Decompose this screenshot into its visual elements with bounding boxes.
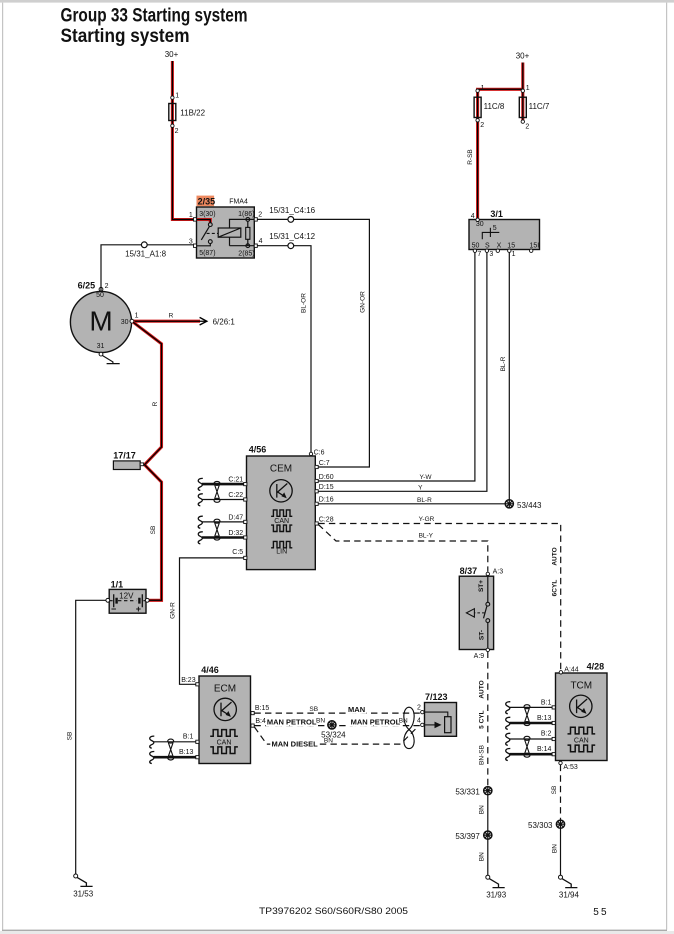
ECM pin B:13 (196, 756, 199, 759)
wire from 3/1 pin 1(15) down to CEM D:16, BL-R (318, 252, 509, 503)
TCM K symbol (570, 695, 592, 717)
svg-text:1: 1 (189, 212, 193, 219)
svg-text:+: + (136, 604, 141, 614)
wire BN from 53/331 to 53/397 (487, 794, 489, 831)
svg-text:Group 33 Starting system: Group 33 Starting system (61, 5, 248, 26)
svg-text:MAN PETROL: MAN PETROL (351, 717, 401, 726)
splice 53/331 (484, 787, 492, 795)
svg-text:15/31_C4:16: 15/31_C4:16 (269, 206, 315, 215)
svg-text:4: 4 (471, 213, 475, 220)
svg-text:C:6: C:6 (314, 449, 325, 456)
wire to TCM B:14 (thick) (510, 753, 553, 756)
pin 1 of fuse 11C/7 (521, 89, 524, 92)
splice 53/443 (505, 500, 513, 508)
svg-text:ECM: ECM (214, 683, 236, 694)
wire BN from 53/303 to ground 31/94 (560, 828, 562, 875)
dashed wire SB from TCM A:53 to splice 53/303 (560, 765, 562, 821)
svg-text:30: 30 (476, 221, 484, 228)
svg-text:C:5: C:5 (232, 549, 243, 556)
wire to TCM B:1 (510, 706, 553, 708)
svg-text:ST+: ST+ (478, 580, 485, 592)
svg-text:53/331: 53/331 (455, 788, 480, 797)
svg-text:Y: Y (418, 485, 423, 492)
ECM K symbol (214, 698, 236, 720)
dashed wire from 8/37 A:9 down to splice 53/331, 5CYL AUTO, BN-SB (487, 652, 489, 787)
svg-text:55: 55 (593, 907, 609, 918)
TCM pin A:53 (559, 761, 562, 764)
svg-text:3/1: 3/1 (490, 209, 503, 219)
CEM body (247, 456, 316, 570)
svg-text:50: 50 (96, 292, 104, 299)
wire from relay pin 2 via 15/31_C4:16 down to CEM C:7, GN-OR (257, 219, 369, 467)
twisted pair symbol C:21/C:22 (214, 481, 220, 502)
wire from 3/1 pin 7(50) down to CEM D:60, Y-W (318, 252, 475, 481)
ignition switch bottom pins (473, 249, 476, 252)
cable break squiggle C:22 (198, 494, 203, 506)
svg-text:D:32: D:32 (228, 530, 243, 537)
TCM CAN symbol (568, 727, 596, 734)
8/37 body (459, 576, 493, 649)
wire red R from motor pin 30 to 6/26:1 (134, 320, 200, 323)
svg-text:CAN: CAN (574, 738, 589, 745)
CEM pin D:60 (315, 479, 318, 482)
pin 4 of 7/123 (421, 723, 424, 726)
pin A:3 of 8/37 (486, 572, 489, 575)
svg-text:5: 5 (493, 225, 497, 232)
svg-text:2: 2 (175, 128, 179, 135)
cable break squiggle C:21 (198, 478, 203, 490)
svg-text:GN-OR: GN-OR (360, 291, 367, 313)
svg-text:6/26:1: 6/26:1 (213, 317, 236, 326)
svg-text:11B/22: 11B/22 (180, 109, 205, 118)
CEM CAN symbol (271, 510, 292, 516)
pin 1 of fuse 11C/8 (476, 89, 479, 92)
dashed wire Y-GR from CEM C:28 to TCM A:44, 6CYL AUTO (318, 524, 560, 671)
ECM pin B:1 (196, 740, 199, 743)
svg-text:M: M (89, 306, 112, 337)
svg-text:4/56: 4/56 (249, 445, 267, 455)
svg-text:SB: SB (150, 526, 157, 535)
battery internal plates (110, 600, 145, 602)
TCM pin B:1 (552, 706, 555, 709)
svg-text:TCM: TCM (570, 680, 592, 691)
svg-text:A:44: A:44 (564, 666, 579, 673)
wire to CEM D:47 (202, 521, 244, 523)
ECM pin B:15 (251, 712, 254, 715)
pin 2 (50) of motor (99, 287, 103, 291)
battery pins (106, 598, 110, 602)
svg-text:MAN DIESEL: MAN DIESEL (272, 740, 319, 749)
svg-text:B:1: B:1 (183, 734, 194, 741)
svg-text:2: 2 (480, 122, 484, 129)
wire to TCM B:13 (thick) (510, 722, 553, 725)
svg-text:R: R (169, 312, 174, 319)
svg-text:1: 1 (175, 92, 179, 99)
svg-text:Y-W: Y-W (419, 474, 432, 481)
ground 31/94 (559, 875, 578, 887)
page frame top band (0, 0, 674, 3)
wire to ECM B:1 (154, 741, 196, 743)
svg-text:2(85): 2(85) (238, 250, 254, 257)
svg-text:31: 31 (97, 343, 105, 350)
7/123 internal heater resistor (425, 712, 448, 717)
dashed wire BL-Y from CEM C:28 to 8/37 A:3 (318, 525, 488, 572)
ground 31/93 (486, 875, 505, 887)
svg-text:D:47: D:47 (228, 514, 243, 521)
svg-text:CEM: CEM (270, 463, 292, 474)
svg-text:2: 2 (105, 283, 109, 290)
svg-text:SB: SB (309, 706, 318, 713)
CEM pin C:7 (315, 465, 318, 468)
pin 1 (30) of motor (130, 319, 134, 323)
svg-text:15/31_C4:12: 15/31_C4:12 (269, 232, 315, 241)
page frame right border (666, 3, 667, 930)
svg-text:50: 50 (472, 242, 480, 249)
svg-text:Starting system: Starting system (61, 26, 190, 47)
pin 2 of fuse 11B/22 (171, 124, 174, 127)
relay internal resistor (246, 227, 250, 239)
svg-text:1: 1 (512, 251, 516, 258)
CEM pin C:28 (315, 522, 318, 525)
pin 2 of fuse 11C/7 (521, 120, 524, 123)
svg-text:B:2: B:2 (541, 731, 552, 738)
cable break squiggle TCM B:2 (506, 733, 511, 745)
splice 53/303 (556, 820, 564, 828)
starter motor 6/25 body (70, 291, 131, 352)
cable break squiggle D:47 (198, 516, 203, 528)
TCM pin B:14 (552, 753, 555, 756)
motor ground lead (102, 356, 119, 364)
cable break squiggle ECM B:13 (150, 751, 155, 763)
svg-text:53/443: 53/443 (517, 501, 542, 510)
TCM pin A:44 (559, 671, 562, 674)
svg-text:53/397: 53/397 (455, 832, 480, 841)
CEM pin C:21 (244, 483, 247, 486)
svg-text:A:3: A:3 (493, 569, 504, 576)
svg-text:BL-OR: BL-OR (301, 293, 308, 313)
svg-text:15/31_A1:8: 15/31_A1:8 (125, 250, 166, 259)
pin A:9 of 8/37 (486, 648, 489, 651)
svg-text:R-SB: R-SB (467, 149, 474, 165)
svg-text:BN: BN (316, 718, 325, 725)
svg-text:B:15: B:15 (255, 705, 270, 712)
dashed wire SB MAN from ECM B:15 to 7/123 pin 2 (254, 712, 420, 714)
wire BN from 53/397 to ground 31/93 (487, 839, 489, 875)
TCM pin B:13 (552, 721, 555, 724)
svg-text:15I: 15I (530, 242, 540, 249)
wire red 30+ to fuses 11C/8 and 11C/7 (478, 63, 523, 122)
cable break squiggle ECM B:1 (150, 736, 155, 748)
pin 1 of fuse 11B/22 (171, 96, 174, 99)
svg-text:B:13: B:13 (537, 715, 552, 722)
8/37 internal ST+ lead (487, 576, 489, 603)
svg-text:1: 1 (526, 85, 530, 92)
svg-text:S: S (485, 242, 490, 249)
svg-text:11C/7: 11C/7 (529, 102, 550, 111)
wire from relay pin 4 via 15/31_C4:12 down to CEM C:6, BL-OR (257, 246, 311, 452)
pin 2 of 7/123 (421, 710, 424, 713)
CEM pin D:47 (244, 520, 247, 523)
wire red 30+ down to relay 2/35 pin 1 (172, 61, 196, 220)
svg-text:17/17: 17/17 (113, 451, 136, 461)
svg-text:4: 4 (259, 238, 263, 245)
wire motor pin 2 up to relay pin 3, 15/31_A1:8 (101, 245, 194, 291)
svg-text:B:23: B:23 (181, 677, 196, 684)
CEM pin C:6 (309, 452, 312, 455)
CEM LIN symbol (271, 541, 292, 547)
wire from 3/1 pin 3(S) down to CEM D:15, Y (318, 252, 487, 491)
svg-text:1(86): 1(86) (238, 211, 254, 218)
svg-text:AUTO: AUTO (478, 680, 485, 698)
relay internal coil (218, 228, 241, 237)
svg-text:1: 1 (135, 313, 139, 320)
svg-text:X: X (497, 242, 502, 249)
svg-text:5 CYL: 5 CYL (478, 710, 485, 728)
svg-text:31/93: 31/93 (486, 890, 507, 899)
dashed wire MAN PETROL BN from ECM B:4 to 7/123 pin 4 (254, 725, 420, 727)
wire to ECM B:13 (thick) (154, 756, 196, 759)
ECM CAN symbol (210, 730, 238, 737)
wire CAN-L to CEM C:22 (202, 499, 244, 501)
battery 1/1 body (109, 589, 146, 613)
svg-text:4/46: 4/46 (201, 665, 219, 675)
svg-text:BL-R: BL-R (417, 497, 432, 504)
8/37 internal ST- lead (487, 623, 489, 649)
twisted pair symbol D:47/D:32 (214, 519, 220, 540)
svg-text:53/303: 53/303 (528, 821, 553, 830)
CEM pin D:32 (244, 536, 247, 539)
svg-text:30+: 30+ (165, 50, 179, 59)
twisted pair symbol TCM B:2/B:14 (524, 736, 530, 757)
svg-text:6/25: 6/25 (78, 281, 96, 291)
twisted pair symbol ECM B:1/B:13 (168, 739, 174, 760)
fuse 11B/22 (169, 104, 176, 121)
fuse 11C/8 (474, 97, 481, 117)
page frame bottom border (2, 930, 667, 931)
svg-text:6CYL: 6CYL (551, 580, 558, 597)
svg-text:SB: SB (67, 732, 74, 741)
svg-text:ST-: ST- (478, 630, 485, 640)
dashed wire MAN DIESEL BN from ECM B:4 (254, 727, 417, 744)
cable twist symbol before 7/123 (404, 707, 414, 748)
svg-text:3: 3 (489, 251, 493, 258)
CEM pin D:15 (315, 490, 318, 493)
CEM K symbol (270, 480, 292, 502)
CEM pin C:5 (244, 556, 247, 559)
wire red from motor pin 30 down to battery via 17/17 (133, 322, 161, 600)
TCM body (556, 673, 608, 761)
ECM body (199, 676, 251, 764)
svg-text:CAN: CAN (274, 518, 289, 525)
svg-text:1: 1 (481, 85, 485, 92)
svg-text:BN: BN (479, 852, 486, 861)
svg-text:C:22: C:22 (228, 492, 243, 499)
svg-text:8/37: 8/37 (460, 566, 478, 576)
svg-text:A:53: A:53 (563, 764, 578, 771)
svg-text:TP3976202 S60/S60R/S80 2005: TP3976202 S60/S60R/S80 2005 (259, 906, 408, 916)
svg-text:BN: BN (324, 738, 333, 745)
svg-text:R: R (152, 401, 159, 406)
wire battery minus to ground 31/53 (76, 600, 106, 874)
svg-text:MAN PETROL: MAN PETROL (267, 717, 317, 726)
CEM pin C:22 (244, 498, 247, 501)
pin 31 of motor (99, 352, 103, 356)
splice 53/397 (484, 831, 492, 839)
wire red R-SB from fuse 11C/8 down to ignition switch 3/1 pin 4 (476, 120, 479, 220)
page frame left border (2, 3, 3, 930)
svg-text:FMA4: FMA4 (229, 198, 248, 205)
svg-text:MAN: MAN (348, 705, 365, 714)
relay 2/35 body (197, 207, 255, 258)
ignition switch 3/1 body (469, 220, 540, 250)
svg-text:C:21: C:21 (228, 477, 243, 484)
relay 2/35 highlight tag (197, 196, 215, 207)
8/37 internal switch (486, 602, 490, 606)
cable break squiggle TCM B:13 (506, 717, 511, 729)
svg-text:Y-GR: Y-GR (419, 516, 435, 523)
svg-text:2: 2 (525, 124, 529, 131)
wire CAN-H to CEM C:21 (thick) (202, 483, 244, 486)
ECM pin B:23 (196, 683, 199, 686)
svg-text:30+: 30+ (516, 52, 530, 61)
svg-text:11C/8: 11C/8 (484, 102, 505, 111)
wire to TCM B:2 (510, 738, 553, 740)
svg-text:2: 2 (417, 705, 421, 712)
svg-text:BL-Y: BL-Y (419, 532, 434, 539)
svg-text:B:4: B:4 (255, 718, 266, 725)
svg-text:30: 30 (121, 319, 129, 326)
fuse 11C/7 (519, 97, 526, 117)
svg-text:7: 7 (477, 251, 481, 258)
ECM pin B:4 (251, 724, 254, 727)
svg-text:4: 4 (417, 717, 421, 724)
svg-text:−: − (111, 604, 116, 614)
CEM pin D:16 (315, 502, 318, 505)
svg-text:B:14: B:14 (537, 746, 552, 753)
cable break squiggle TCM B:1 (506, 702, 511, 714)
TCM pin B:2 (552, 737, 555, 740)
svg-text:D:15: D:15 (319, 484, 334, 491)
svg-text:D:16: D:16 (319, 497, 334, 504)
svg-text:1/1: 1/1 (111, 579, 124, 589)
svg-text:C:7: C:7 (319, 460, 330, 467)
svg-text:BN: BN (479, 805, 486, 814)
svg-text:12V: 12V (119, 592, 134, 601)
svg-text:BN: BN (551, 844, 558, 853)
ignition switch internal symbol (482, 232, 499, 239)
svg-text:D:60: D:60 (319, 474, 334, 481)
relay internal switch (208, 223, 212, 227)
svg-text:4/28: 4/28 (587, 661, 605, 671)
svg-text:LIN: LIN (276, 549, 287, 556)
svg-text:GN-R: GN-R (169, 602, 176, 619)
svg-text:2/35: 2/35 (198, 196, 216, 206)
svg-text:3(30): 3(30) (199, 211, 215, 218)
svg-text:A:9: A:9 (474, 653, 485, 660)
svg-text:CAN: CAN (217, 740, 232, 747)
relay pin squares (194, 218, 197, 221)
svg-text:AUTO: AUTO (551, 547, 558, 565)
pin 2 of fuse 11C/8 (476, 119, 479, 122)
svg-text:BL-R: BL-R (500, 356, 507, 371)
twisted pair symbol TCM B:1/B:13 (524, 705, 530, 726)
cable break squiggle D:32 (198, 532, 203, 544)
svg-text:2: 2 (258, 211, 262, 218)
splice 53/324 (328, 721, 336, 729)
7/123 body (425, 703, 457, 737)
ground 31/53 (74, 874, 93, 886)
svg-text:B:13: B:13 (179, 749, 194, 756)
svg-text:BN-SB: BN-SB (478, 745, 485, 765)
cable break squiggle TCM B:14 (506, 748, 511, 760)
svg-text:15: 15 (507, 242, 515, 249)
svg-text:31/94: 31/94 (559, 890, 580, 899)
wire to CEM D:32 (thick) (202, 536, 244, 539)
wire GN-R from CEM C:5 to ECM B:23 (180, 558, 244, 684)
svg-text:31/53: 31/53 (73, 889, 94, 898)
svg-text:B:1: B:1 (541, 699, 552, 706)
svg-text:SB: SB (551, 786, 558, 795)
relay internal red stub to switch contact (197, 220, 211, 223)
svg-text:7/123: 7/123 (425, 692, 448, 702)
svg-text:5(87): 5(87) (199, 250, 215, 257)
svg-text:C:28: C:28 (319, 516, 334, 523)
